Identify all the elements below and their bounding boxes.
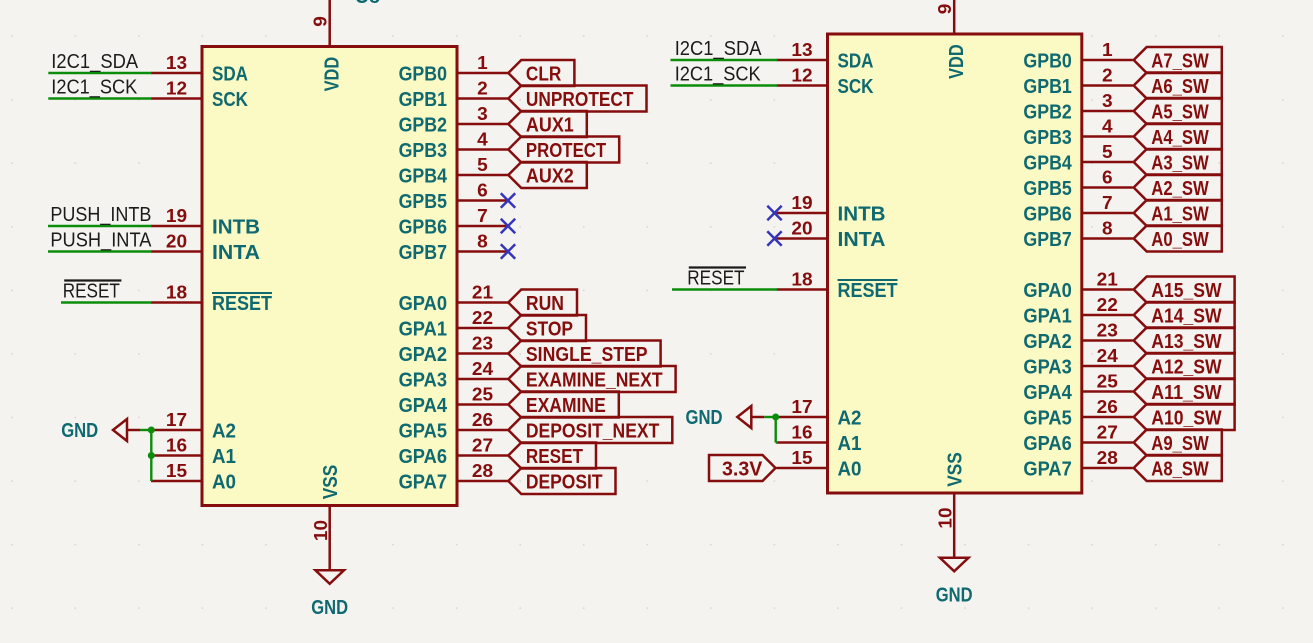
wire [48, 72, 151, 74]
pin 21 GPA0 (right side) [1023, 270, 1132, 302]
svg-text:INTB: INTB [838, 203, 886, 225]
svg-text:27: 27 [1097, 423, 1118, 443]
wire [671, 59, 778, 61]
pin 4 GPB3 (right side) [1023, 117, 1132, 149]
svg-text:VSS: VSS [945, 452, 967, 487]
svg-text:13: 13 [166, 53, 187, 73]
svg-text:12: 12 [791, 66, 812, 86]
global label CLR [508, 60, 574, 86]
svg-text:SCK: SCK [838, 76, 874, 98]
svg-text:GPB2: GPB2 [1023, 101, 1071, 123]
svg-text:24: 24 [1097, 346, 1118, 366]
pin 23 GPA2 (right side) [399, 334, 508, 366]
svg-text:23: 23 [472, 334, 493, 354]
global label PROTECT [508, 137, 619, 163]
svg-text:RESET: RESET [838, 280, 898, 302]
local label I2C1_SDA [51, 51, 138, 73]
svg-text:RUN: RUN [526, 293, 564, 315]
power symbol GND (down arrow) [936, 558, 973, 607]
svg-text:GPA2: GPA2 [1023, 331, 1071, 353]
wire [775, 417, 777, 443]
svg-text:RESET: RESET [212, 293, 272, 315]
pin 16 A1 (left side) [151, 436, 236, 468]
no-connect flag [501, 244, 515, 258]
svg-text:DEPOSIT_NEXT: DEPOSIT_NEXT [526, 420, 659, 442]
pin 23 GPA2 (right side) [1023, 321, 1132, 353]
pin 27 GPA6 (right side) [1023, 423, 1132, 455]
svg-text:13: 13 [791, 40, 812, 60]
svg-text:GPA5: GPA5 [1023, 407, 1071, 429]
svg-text:A3_SW: A3_SW [1151, 152, 1209, 174]
svg-text:21: 21 [1097, 270, 1118, 290]
svg-text:21: 21 [472, 283, 493, 303]
pin 24 GPA3 (right side) [1023, 346, 1132, 378]
global label A7_SW [1134, 47, 1222, 73]
svg-text:25: 25 [1097, 372, 1118, 392]
svg-text:A1: A1 [212, 446, 236, 468]
svg-text:GPA4: GPA4 [1023, 382, 1072, 404]
svg-text:7: 7 [1102, 193, 1113, 213]
global label A2_SW [1134, 175, 1222, 201]
svg-text:GPA2: GPA2 [399, 344, 447, 366]
pin 10 VSS (bottom, power) [311, 465, 342, 571]
svg-text:A15_SW: A15_SW [1151, 280, 1221, 302]
pin 8 GPB7 (right side) [1023, 219, 1132, 251]
pin 1 GPB0 (right side) [1023, 40, 1132, 72]
pin 6 GPB5 (right side) [1023, 168, 1132, 200]
svg-text:GND: GND [936, 584, 973, 606]
svg-text:GPB4: GPB4 [1023, 152, 1072, 174]
svg-text:18: 18 [166, 283, 187, 303]
pin 9 VDD (top, power) [310, 0, 343, 91]
global label A15_SW [1134, 277, 1235, 303]
pin 12 SCK (left side) [777, 66, 874, 98]
pin 27 GPA6 (right side) [399, 436, 508, 468]
svg-text:16: 16 [791, 423, 812, 443]
global label A13_SW [1134, 328, 1235, 354]
svg-text:6: 6 [1102, 168, 1113, 188]
pin 18 RESET (left side) [777, 270, 898, 302]
pin 17 A2 (left side) [151, 410, 236, 442]
svg-text:RESET: RESET [63, 280, 120, 302]
svg-text:A9_SW: A9_SW [1151, 433, 1209, 455]
svg-text:RESET: RESET [687, 267, 744, 289]
svg-text:10: 10 [311, 520, 331, 541]
wire [671, 84, 778, 86]
svg-text:12: 12 [166, 79, 187, 99]
pin 6 GPB5 (right side) [399, 181, 508, 213]
svg-text:A1_SW: A1_SW [1151, 203, 1209, 225]
svg-text:GPB1: GPB1 [1023, 76, 1071, 98]
svg-text:A0: A0 [212, 471, 236, 493]
wire [776, 441, 778, 443]
svg-text:GPB0: GPB0 [1023, 50, 1071, 72]
svg-text:A8_SW: A8_SW [1151, 458, 1209, 480]
pin 17 A2 (left side) [777, 397, 862, 429]
svg-text:26: 26 [472, 410, 493, 430]
svg-text:5: 5 [1102, 142, 1113, 162]
svg-text:24: 24 [472, 359, 493, 379]
pin 28 GPA7 (right side) [399, 461, 508, 493]
pin 5 GPB4 (right side) [399, 155, 508, 187]
global label A11_SW [1134, 379, 1235, 405]
svg-text:10: 10 [935, 507, 955, 528]
global label A4_SW [1134, 124, 1222, 150]
svg-text:GPA0: GPA0 [399, 293, 447, 315]
svg-text:22: 22 [1097, 295, 1118, 315]
svg-text:8: 8 [1102, 219, 1113, 239]
pin 2 GPB1 (right side) [399, 79, 508, 111]
svg-text:19: 19 [166, 206, 187, 226]
pin 16 A1 (left side) [777, 423, 862, 455]
svg-text:PUSH_INTA: PUSH_INTA [50, 229, 152, 251]
pin 24 GPA3 (right side) [399, 359, 508, 391]
svg-text:SDA: SDA [838, 50, 874, 72]
pin 12 SCK (left side) [151, 79, 248, 111]
svg-text:I2C1_SDA: I2C1_SDA [51, 51, 138, 73]
pin 10 VSS (bottom, power) [935, 452, 966, 558]
svg-text:A12_SW: A12_SW [1151, 356, 1221, 378]
pin 4 GPB3 (right side) [399, 130, 508, 162]
local label PUSH_INTA [50, 229, 152, 251]
svg-text:GPB6: GPB6 [1023, 203, 1071, 225]
svg-text:27: 27 [472, 436, 493, 456]
svg-text:8: 8 [477, 232, 488, 252]
svg-text:DEPOSIT: DEPOSIT [526, 471, 603, 493]
svg-text:GPA3: GPA3 [1023, 356, 1071, 378]
svg-text:INTB: INTB [212, 216, 260, 238]
svg-text:A7_SW: A7_SW [1151, 50, 1209, 72]
power symbol GND (down arrow) [311, 570, 348, 619]
wire [140, 429, 152, 431]
svg-text:15: 15 [791, 448, 812, 468]
svg-text:GPB4: GPB4 [399, 165, 448, 187]
svg-text:A14_SW: A14_SW [1151, 305, 1221, 327]
svg-text:4: 4 [477, 130, 488, 150]
pin 21 GPA0 (right side) [399, 283, 508, 315]
svg-text:PROTECT: PROTECT [526, 140, 606, 162]
svg-text:GPA1: GPA1 [1023, 305, 1071, 327]
svg-text:1: 1 [477, 53, 488, 73]
svg-text:25: 25 [472, 385, 493, 405]
svg-text:2: 2 [1102, 66, 1113, 86]
global label RUN [508, 290, 577, 316]
svg-text:6: 6 [477, 181, 488, 201]
global label A9_SW [1134, 430, 1222, 456]
svg-text:GPB6: GPB6 [399, 216, 447, 238]
pin 26 GPA5 (right side) [399, 410, 508, 442]
svg-text:5: 5 [477, 155, 488, 175]
pin 28 GPA7 (right side) [1023, 448, 1132, 480]
wire [48, 225, 152, 227]
svg-text:VDD: VDD [946, 44, 968, 79]
global label DEPOSIT [508, 468, 615, 494]
global label EXAMINE [508, 392, 619, 418]
svg-text:GPB7: GPB7 [1023, 229, 1071, 251]
pin 18 RESET (left side) [151, 283, 272, 315]
svg-text:A2: A2 [838, 407, 862, 429]
svg-text:A13_SW: A13_SW [1151, 331, 1221, 353]
local label RESET [687, 267, 746, 289]
svg-text:3.3V: 3.3V [722, 458, 763, 480]
no-connect flag [501, 193, 515, 207]
svg-text:GPA0: GPA0 [1023, 280, 1071, 302]
local label I2C1_SDA [675, 38, 762, 60]
svg-text:GPA7: GPA7 [1023, 458, 1071, 480]
svg-text:A6_SW: A6_SW [1151, 76, 1209, 98]
pin 25 GPA4 (right side) [399, 385, 508, 417]
svg-text:GND: GND [686, 407, 723, 429]
svg-text:1: 1 [1102, 40, 1113, 60]
svg-text:20: 20 [166, 232, 187, 252]
svg-text:23: 23 [1097, 321, 1118, 341]
svg-text:18: 18 [791, 270, 812, 290]
svg-text:A4_SW: A4_SW [1151, 127, 1209, 149]
svg-text:GPA6: GPA6 [399, 446, 447, 468]
svg-text:VSS: VSS [320, 465, 342, 500]
svg-text:GPB2: GPB2 [399, 114, 447, 136]
global label STOP [508, 315, 586, 341]
pin 19 INTB (left side) [777, 193, 886, 225]
global label A6_SW [1134, 73, 1222, 99]
svg-text:INTA: INTA [212, 242, 260, 264]
svg-text:GPB5: GPB5 [399, 191, 447, 213]
pin 22 GPA1 (right side) [1023, 295, 1132, 327]
global label A1_SW [1134, 200, 1222, 226]
svg-text:GPA5: GPA5 [399, 420, 447, 442]
pin 15 A0 (left side) [777, 448, 862, 480]
power symbol GND (left arrow) [61, 419, 140, 442]
svg-text:GPA4: GPA4 [399, 395, 448, 417]
pin 25 GPA4 (right side) [1023, 372, 1132, 404]
svg-text:A5_SW: A5_SW [1151, 101, 1209, 123]
svg-text:16: 16 [166, 436, 187, 456]
svg-text:GPB3: GPB3 [399, 140, 447, 162]
global label AUX1 [508, 111, 587, 137]
global label 3.3V (power) [709, 455, 776, 481]
svg-text:22: 22 [472, 308, 493, 328]
svg-text:I2C1_SCK: I2C1_SCK [51, 76, 138, 98]
svg-text:I2C1_SCK: I2C1_SCK [675, 63, 762, 85]
pin 5 GPB4 (right side) [1023, 142, 1132, 174]
svg-text:20: 20 [791, 219, 812, 239]
svg-text:2: 2 [477, 79, 488, 99]
svg-text:GPB1: GPB1 [399, 89, 447, 111]
svg-text:GPB7: GPB7 [399, 242, 447, 264]
svg-text:AUX1: AUX1 [526, 114, 574, 136]
svg-text:GND: GND [311, 597, 348, 619]
svg-text:9: 9 [935, 4, 955, 15]
svg-text:CLR: CLR [526, 63, 562, 85]
global label A5_SW [1134, 98, 1222, 124]
IC U8 body (MCP23017 I/O expander) [202, 47, 457, 506]
svg-text:GPA7: GPA7 [399, 471, 447, 493]
IC U9 body (MCP23017 I/O expander) [828, 34, 1082, 493]
svg-text:26: 26 [1097, 397, 1118, 417]
pin 9 VDD (top, power) [935, 0, 968, 79]
svg-text:STOP: STOP [526, 318, 573, 340]
svg-text:4: 4 [1102, 117, 1113, 137]
pin 20 INTA (left side) [777, 219, 886, 251]
svg-text:A2_SW: A2_SW [1151, 178, 1209, 200]
pin 13 SDA (left side) [151, 53, 248, 85]
power symbol GND (left arrow) [686, 406, 765, 429]
pin 22 GPA1 (right side) [399, 308, 508, 340]
svg-text:GND: GND [61, 420, 98, 442]
wire [61, 301, 152, 303]
global label DEPOSIT_NEXT [508, 417, 672, 443]
wire [48, 250, 152, 252]
svg-text:A2: A2 [212, 420, 236, 442]
svg-text:3: 3 [477, 104, 488, 124]
global label UNPROTECT [508, 86, 646, 112]
wire [150, 430, 152, 481]
svg-text:28: 28 [472, 461, 493, 481]
global label A0_SW [1134, 226, 1222, 252]
global label A8_SW [1134, 455, 1222, 481]
svg-text:AUX2: AUX2 [526, 165, 574, 187]
pin 1 GPB0 (right side) [399, 53, 508, 85]
global label A14_SW [1134, 302, 1235, 328]
svg-text:15: 15 [166, 461, 187, 481]
svg-text:A10_SW: A10_SW [1151, 407, 1221, 429]
global label A10_SW [1134, 404, 1235, 430]
svg-text:VDD: VDD [321, 57, 343, 92]
global label EXAMINE_NEXT [508, 366, 675, 392]
svg-text:7: 7 [477, 206, 488, 226]
pin 19 INTB (left side) [151, 206, 260, 238]
no-connect flag [767, 231, 781, 245]
svg-text:UNPROTECT: UNPROTECT [526, 89, 634, 111]
global label SINGLE_STEP [508, 341, 660, 367]
wire [672, 288, 778, 290]
no-connect flag [501, 219, 515, 233]
svg-text:19: 19 [791, 193, 812, 213]
pin 15 A0 (left side) [151, 461, 236, 493]
pin 7 GPB6 (right side) [399, 206, 508, 238]
svg-text:17: 17 [791, 397, 812, 417]
local label PUSH_INTB [50, 204, 151, 226]
junction [772, 414, 779, 421]
global label RESET [508, 443, 596, 469]
svg-text:GPA6: GPA6 [1023, 433, 1071, 455]
local label I2C1_SCK [51, 76, 138, 98]
wire [764, 416, 777, 418]
svg-text:SDA: SDA [212, 63, 248, 85]
pin 26 GPA5 (right side) [1023, 397, 1132, 429]
svg-text:RESET: RESET [526, 446, 583, 468]
svg-text:GPB5: GPB5 [1023, 178, 1071, 200]
svg-text:PUSH_INTB: PUSH_INTB [50, 204, 151, 226]
svg-text:I2C1_SDA: I2C1_SDA [675, 38, 762, 60]
local label RESET [63, 280, 122, 302]
svg-text:SINGLE_STEP: SINGLE_STEP [526, 344, 648, 366]
svg-text:A1: A1 [838, 433, 862, 455]
pin 8 GPB7 (right side) [399, 232, 508, 264]
svg-text:9: 9 [310, 16, 330, 27]
wire [48, 97, 151, 99]
svg-text:3: 3 [1102, 91, 1113, 111]
junction [148, 452, 155, 459]
no-connect flag [767, 206, 781, 220]
svg-text:GPA3: GPA3 [399, 369, 447, 391]
pin 3 GPB2 (right side) [399, 104, 508, 136]
global label A12_SW [1134, 353, 1235, 379]
svg-text:EXAMINE_NEXT: EXAMINE_NEXT [526, 369, 663, 391]
svg-text:17: 17 [166, 410, 187, 430]
pin 13 SDA (left side) [777, 40, 874, 72]
local label I2C1_SCK [675, 63, 762, 85]
svg-text:EXAMINE: EXAMINE [526, 395, 606, 417]
pin 20 INTA (left side) [151, 232, 260, 264]
svg-text:28: 28 [1097, 448, 1118, 468]
svg-text:A0: A0 [838, 458, 862, 480]
svg-text:GPB0: GPB0 [399, 63, 447, 85]
global label AUX2 [508, 162, 587, 188]
global label A3_SW [1134, 149, 1222, 175]
pin 3 GPB2 (right side) [1023, 91, 1132, 123]
svg-text:U8: U8 [355, 0, 380, 8]
junction [148, 427, 155, 434]
svg-text:A11_SW: A11_SW [1151, 382, 1221, 404]
svg-text:GPB3: GPB3 [1023, 127, 1071, 149]
svg-text:A0_SW: A0_SW [1151, 229, 1209, 251]
svg-text:INTA: INTA [838, 229, 886, 251]
pin 7 GPB6 (right side) [1023, 193, 1132, 225]
svg-text:GPA1: GPA1 [399, 318, 447, 340]
pin 2 GPB1 (right side) [1023, 66, 1132, 98]
svg-text:SCK: SCK [212, 89, 248, 111]
